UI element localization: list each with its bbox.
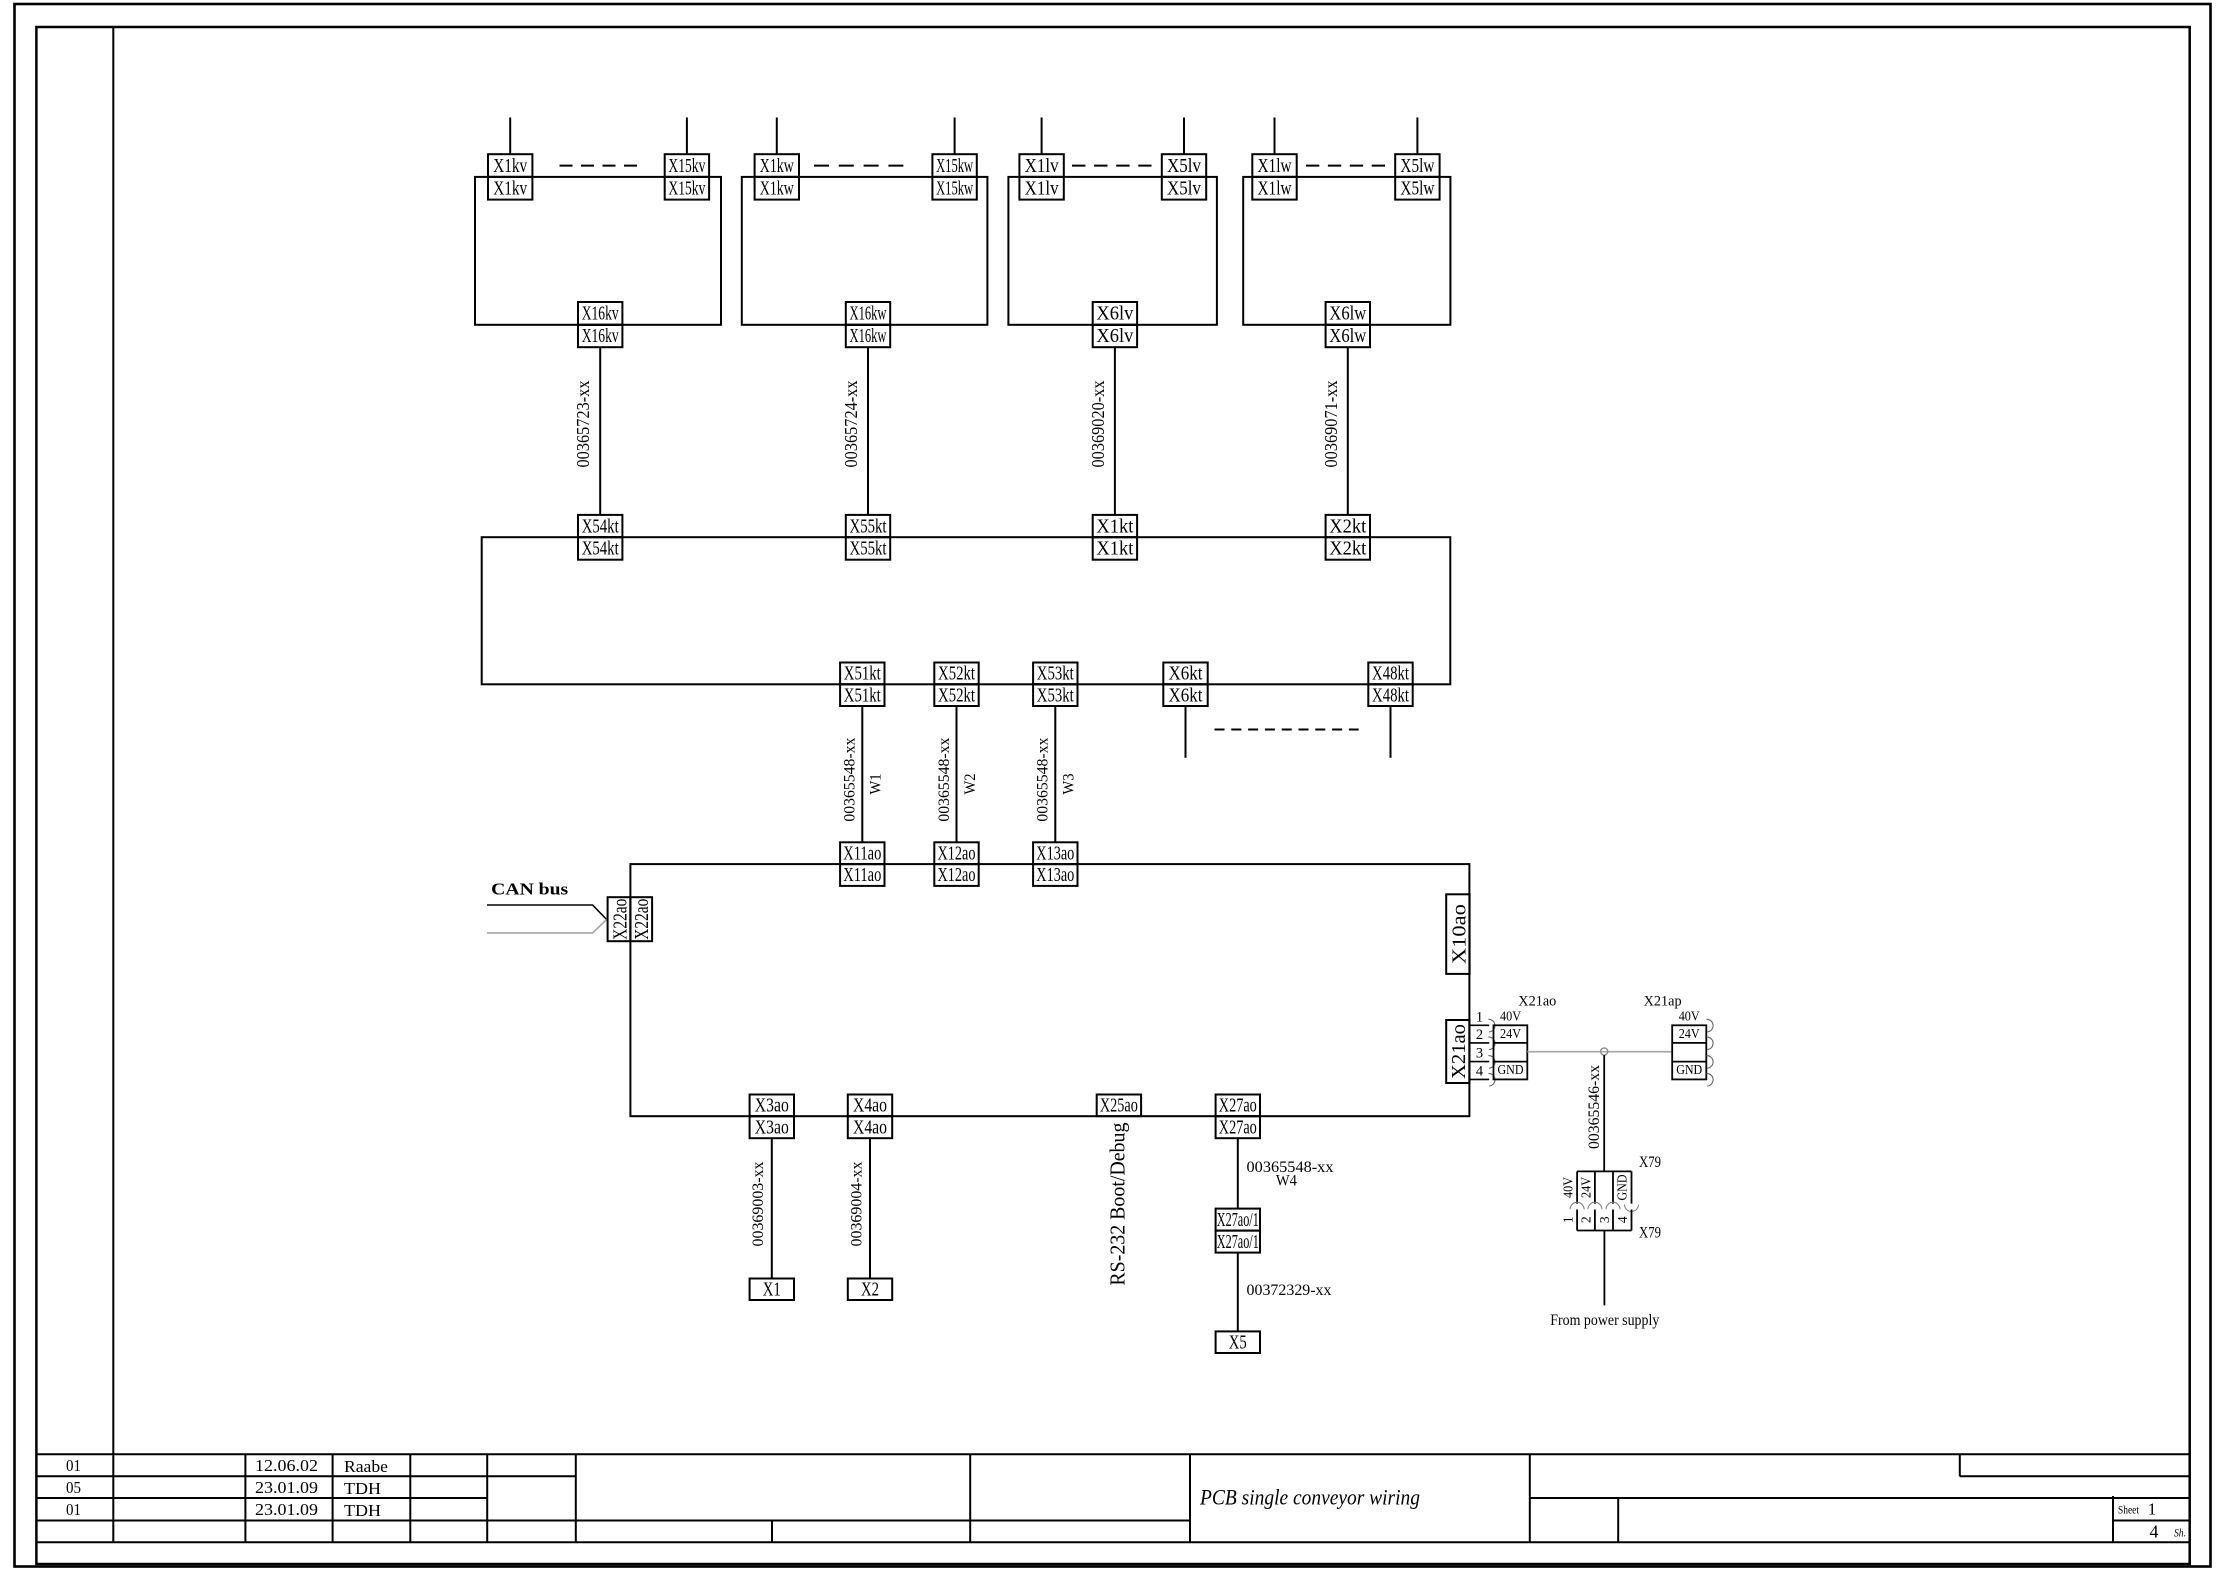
- svg-text:00369020-xx: 00369020-xx: [1088, 380, 1108, 467]
- connector X55kt: [846, 515, 890, 560]
- svg-text:W3: W3: [1061, 773, 1078, 794]
- connector X13ao: [1033, 842, 1077, 886]
- svg-text:X1kt: X1kt: [1096, 516, 1134, 537]
- connector X4ao: [848, 1095, 892, 1139]
- svg-text:X2kt: X2kt: [1329, 539, 1367, 560]
- svg-text:X21ao: X21ao: [1518, 994, 1556, 1010]
- svg-text:X11ao: X11ao: [843, 865, 881, 886]
- svg-text:X54kt: X54kt: [582, 539, 619, 560]
- connector X5lw: [1395, 154, 1439, 199]
- svg-text:TDH: TDH: [344, 1479, 381, 1498]
- svg-text:X22ao: X22ao: [632, 899, 653, 940]
- svg-text:X55kt: X55kt: [850, 539, 887, 560]
- svg-text:1: 1: [1476, 1009, 1483, 1025]
- svg-text:X15kw: X15kw: [936, 179, 973, 200]
- wire stub above X1lv: [1041, 118, 1043, 155]
- svg-text:1: 1: [1561, 1216, 1576, 1223]
- svg-text:X5lv: X5lv: [1167, 179, 1201, 200]
- svg-text:X55kt: X55kt: [850, 516, 887, 537]
- connector X6kt: [1163, 663, 1207, 707]
- svg-text:X48kt: X48kt: [1372, 685, 1409, 706]
- svg-text:X51kt: X51kt: [844, 685, 881, 706]
- svg-text:X79: X79: [1639, 1225, 1661, 1242]
- svg-text:GND: GND: [1615, 1175, 1630, 1201]
- svg-text:W4: W4: [1276, 1173, 1297, 1190]
- connector X52kt: [934, 663, 978, 707]
- svg-text:Sh.: Sh.: [2174, 1528, 2186, 1540]
- svg-text:X27ao: X27ao: [1219, 1117, 1257, 1138]
- svg-text:X1kv: X1kv: [493, 179, 527, 200]
- svg-text:23.01.09: 23.01.09: [255, 1500, 318, 1519]
- cable 00369020-xx from X6lv to X1kt: [1114, 347, 1116, 515]
- svg-text:X6lv: X6lv: [1096, 304, 1133, 325]
- conveyor PCB box group 4: [1243, 177, 1450, 325]
- svg-text:24V: 24V: [1679, 1026, 1700, 1041]
- svg-text:X5: X5: [1229, 1332, 1247, 1353]
- connector X12ao: [934, 842, 978, 886]
- connector X48kt: [1368, 663, 1412, 707]
- svg-text:X1kt: X1kt: [1096, 539, 1134, 560]
- wire (gray) X21ao pin3 to X21ap: [1527, 1051, 1672, 1053]
- connector X54kt: [578, 515, 622, 560]
- dashed continuation line: [814, 165, 904, 167]
- svg-text:00365723-xx: 00365723-xx: [573, 380, 593, 467]
- svg-text:05: 05: [66, 1478, 81, 1497]
- svg-text:X27ao/1: X27ao/1: [1217, 1210, 1259, 1231]
- title block: [36, 1454, 2189, 1542]
- svg-text:X6lv: X6lv: [1096, 326, 1133, 347]
- svg-text:00372329-xx: 00372329-xx: [1247, 1282, 1332, 1299]
- svg-text:X1lw: X1lw: [1258, 179, 1292, 200]
- connector X21ao (name box): [1446, 1020, 1470, 1083]
- connector X10ao: [1446, 894, 1470, 974]
- svg-text:X12ao: X12ao: [938, 865, 976, 886]
- svg-text:X5lw: X5lw: [1400, 156, 1434, 177]
- X21ao pin wires and hooks: [1469, 1024, 1489, 1026]
- conveyor PCB box group 2: [742, 177, 988, 325]
- svg-text:X15kw: X15kw: [936, 156, 973, 177]
- wire stub below X6kt: [1185, 706, 1187, 758]
- connector X2kt: [1326, 515, 1370, 560]
- X21ap pin value box: [1672, 1025, 1706, 1079]
- connector X5: [1216, 1331, 1260, 1353]
- connector X25ao: [1097, 1095, 1141, 1117]
- svg-text:24V: 24V: [1579, 1177, 1594, 1198]
- connector X27ao/1: [1216, 1209, 1260, 1253]
- svg-text:01: 01: [66, 1500, 81, 1519]
- svg-text:X22ao: X22ao: [610, 899, 631, 940]
- wire stub above X15kw: [954, 118, 956, 155]
- svg-text:00369003-xx: 00369003-xx: [750, 1162, 767, 1247]
- svg-text:X6lw: X6lw: [1329, 304, 1366, 325]
- connector X6lv: [1093, 302, 1137, 347]
- X21ap hooks: [1707, 1019, 1714, 1032]
- svg-text:00365724-xx: 00365724-xx: [841, 380, 861, 467]
- svg-text:X6kt: X6kt: [1169, 685, 1204, 706]
- cable W4 00365548-xx from X27ao to X27ao/1: [1237, 1138, 1239, 1208]
- svg-text:X1lv: X1lv: [1025, 179, 1059, 200]
- svg-text:4: 4: [1476, 1063, 1484, 1079]
- wire stub above X1kw: [776, 118, 778, 155]
- svg-text:23.01.09: 23.01.09: [255, 1478, 318, 1497]
- svg-text:X11ao: X11ao: [843, 843, 881, 864]
- svg-text:01: 01: [66, 1456, 81, 1475]
- svg-text:X3ao: X3ao: [755, 1117, 789, 1138]
- svg-text:Raabe: Raabe: [344, 1457, 388, 1476]
- svg-text:00365546-xx: 00365546-xx: [1586, 1065, 1603, 1149]
- svg-text:TDH: TDH: [344, 1501, 381, 1520]
- connector X11ao: [840, 842, 884, 886]
- svg-text:X6lw: X6lw: [1329, 326, 1366, 347]
- svg-text:Sheet: Sheet: [2118, 1503, 2140, 1517]
- dashed continuation line between X6kt and X48kt: [1215, 729, 1359, 731]
- svg-text:40V: 40V: [1561, 1177, 1576, 1198]
- wire stub above X5lw: [1416, 118, 1418, 155]
- svg-text:X2kt: X2kt: [1329, 516, 1367, 537]
- svg-text:X4ao: X4ao: [853, 1117, 887, 1138]
- svg-text:GND: GND: [1676, 1062, 1702, 1077]
- svg-text:X16kv: X16kv: [582, 304, 619, 325]
- svg-text:X79: X79: [1639, 1154, 1661, 1171]
- svg-text:X52kt: X52kt: [938, 685, 975, 706]
- svg-text:00365548-xx: 00365548-xx: [842, 737, 859, 821]
- svg-text:X3ao: X3ao: [755, 1096, 789, 1117]
- CAN bus arrow: [487, 905, 607, 920]
- svg-text:X15kv: X15kv: [668, 179, 705, 200]
- svg-text:X51kt: X51kt: [844, 664, 881, 685]
- cable 00369004-xx from X4ao to X2: [869, 1138, 871, 1278]
- cable 00365723-xx from X16kv to X54kt: [599, 347, 601, 515]
- cable W1 00365548-xx from X51kt to X11ao: [861, 706, 863, 842]
- conveyor PCB box group 1: [475, 177, 721, 325]
- wire from power supply to X79: [1603, 1231, 1605, 1306]
- connector X15kw: [932, 154, 976, 199]
- dashed continuation line: [1306, 165, 1385, 167]
- connector X6lw: [1326, 302, 1370, 347]
- svg-text:X52kt: X52kt: [938, 664, 975, 685]
- svg-text:X21ap: X21ap: [1644, 994, 1682, 1010]
- svg-text:X21ao: X21ao: [1449, 1024, 1470, 1079]
- cable 00365724-xx from X16kw to X55kt: [867, 347, 869, 515]
- connector X1kw: [755, 154, 799, 199]
- cable 00372329-xx from X27ao/1 to X5: [1237, 1253, 1239, 1332]
- svg-text:X1lw: X1lw: [1258, 156, 1292, 177]
- connector X1lw: [1252, 154, 1296, 199]
- connector X3ao: [750, 1095, 794, 1139]
- wire stub below X48kt: [1390, 706, 1392, 758]
- X21ao pin value box: [1494, 1025, 1528, 1079]
- svg-text:X27ao: X27ao: [1219, 1096, 1257, 1117]
- connector X5lv: [1162, 154, 1206, 199]
- svg-text:W2: W2: [962, 774, 979, 795]
- svg-text:40V: 40V: [1679, 1008, 1700, 1023]
- svg-text:3: 3: [1597, 1216, 1612, 1223]
- svg-text:X16kv: X16kv: [582, 326, 619, 347]
- svg-text:X48kt: X48kt: [1372, 664, 1409, 685]
- svg-text:X27ao/1: X27ao/1: [1217, 1232, 1259, 1253]
- svg-text:X5lv: X5lv: [1167, 156, 1201, 177]
- svg-text:X2: X2: [861, 1280, 879, 1301]
- X79 hooks: [1570, 1202, 1584, 1209]
- svg-text:X1kw: X1kw: [760, 179, 794, 200]
- svg-text:X16kw: X16kw: [850, 304, 887, 325]
- svg-text:X16kw: X16kw: [850, 326, 887, 347]
- svg-text:X12ao: X12ao: [938, 843, 976, 864]
- svg-text:X15kv: X15kv: [668, 156, 705, 177]
- cable 00369071-xx from X6lw to X2kt: [1347, 347, 1349, 515]
- cable W3 00365548-xx from X53kt to X13ao: [1054, 706, 1056, 842]
- svg-text:From power supply: From power supply: [1550, 1312, 1659, 1329]
- connector X16kv: [578, 302, 622, 347]
- wire stub above X1kv: [509, 118, 511, 155]
- svg-text:X53kt: X53kt: [1037, 685, 1074, 706]
- connector X1kt: [1093, 515, 1137, 560]
- wire stub above X5lv: [1183, 118, 1185, 155]
- svg-text:00369071-xx: 00369071-xx: [1321, 380, 1341, 467]
- conveyor PCB box group 3: [1008, 177, 1217, 325]
- svg-text:2: 2: [1476, 1027, 1483, 1043]
- cable 00369003-xx from X3ao to X1: [771, 1138, 773, 1278]
- svg-text:X1kv: X1kv: [493, 156, 527, 177]
- wire stub above X1lw: [1274, 118, 1276, 155]
- connector X27ao: [1216, 1095, 1260, 1139]
- svg-text:00365548-xx: 00365548-xx: [936, 737, 953, 821]
- svg-text:X1kw: X1kw: [760, 156, 794, 177]
- svg-text:W1: W1: [868, 774, 885, 795]
- svg-text:X53kt: X53kt: [1037, 664, 1074, 685]
- dashed continuation line: [560, 165, 638, 167]
- svg-text:12.06.02: 12.06.02: [255, 1456, 318, 1475]
- connector X1: [750, 1279, 794, 1301]
- svg-text:GND: GND: [1498, 1062, 1524, 1077]
- svg-text:X25ao: X25ao: [1100, 1096, 1138, 1117]
- cable W2 00365548-xx from X52kt to X12ao: [956, 706, 958, 842]
- svg-text:RS-232 Boot/Debug: RS-232 Boot/Debug: [1106, 1122, 1130, 1285]
- left margin column line: [112, 27, 114, 1542]
- connector X15kv: [665, 154, 709, 199]
- connector X51kt: [840, 663, 884, 707]
- svg-text:PCB single conveyor wiring: PCB single conveyor wiring: [1199, 1485, 1420, 1510]
- main controller PCB box (ao): [630, 864, 1469, 1116]
- svg-text:00365548-xx: 00365548-xx: [1035, 737, 1052, 821]
- svg-text:X1lv: X1lv: [1025, 156, 1059, 177]
- svg-text:00369004-xx: 00369004-xx: [848, 1162, 865, 1247]
- svg-text:4: 4: [2150, 1522, 2159, 1542]
- svg-text:X54kt: X54kt: [582, 516, 619, 537]
- svg-text:3: 3: [1476, 1046, 1483, 1062]
- svg-text:CAN bus: CAN bus: [491, 879, 568, 898]
- connector X22ao (rotated double box): [608, 897, 654, 941]
- connector X79 value box: [1577, 1170, 1631, 1172]
- connector X1kv: [488, 154, 532, 199]
- svg-text:X5lw: X5lw: [1400, 179, 1434, 200]
- wire stub above X15kv: [686, 118, 688, 155]
- connector X16kw: [846, 302, 890, 347]
- connector X2: [848, 1279, 892, 1301]
- svg-text:40V: 40V: [1500, 1008, 1521, 1023]
- connector X1lv: [1019, 154, 1063, 199]
- svg-text:X1: X1: [763, 1280, 781, 1301]
- svg-text:24V: 24V: [1500, 1026, 1521, 1041]
- svg-text:1: 1: [2148, 1500, 2157, 1519]
- svg-text:X10ao: X10ao: [1449, 904, 1471, 964]
- svg-text:X6kt: X6kt: [1169, 664, 1204, 685]
- PCB distribution box (kt): [482, 537, 1451, 684]
- X79 pin number box: [1576, 1210, 1578, 1231]
- svg-text:X13ao: X13ao: [1036, 843, 1074, 864]
- cable 00365546-xx from junction to X79: [1603, 1055, 1605, 1171]
- svg-text:4: 4: [1615, 1216, 1630, 1223]
- dashed continuation line: [1072, 165, 1152, 167]
- svg-text:X4ao: X4ao: [853, 1096, 887, 1117]
- connector X53kt: [1033, 663, 1077, 707]
- svg-text:2: 2: [1579, 1216, 1594, 1223]
- svg-text:X13ao: X13ao: [1036, 865, 1074, 886]
- junction node: [1601, 1048, 1608, 1055]
